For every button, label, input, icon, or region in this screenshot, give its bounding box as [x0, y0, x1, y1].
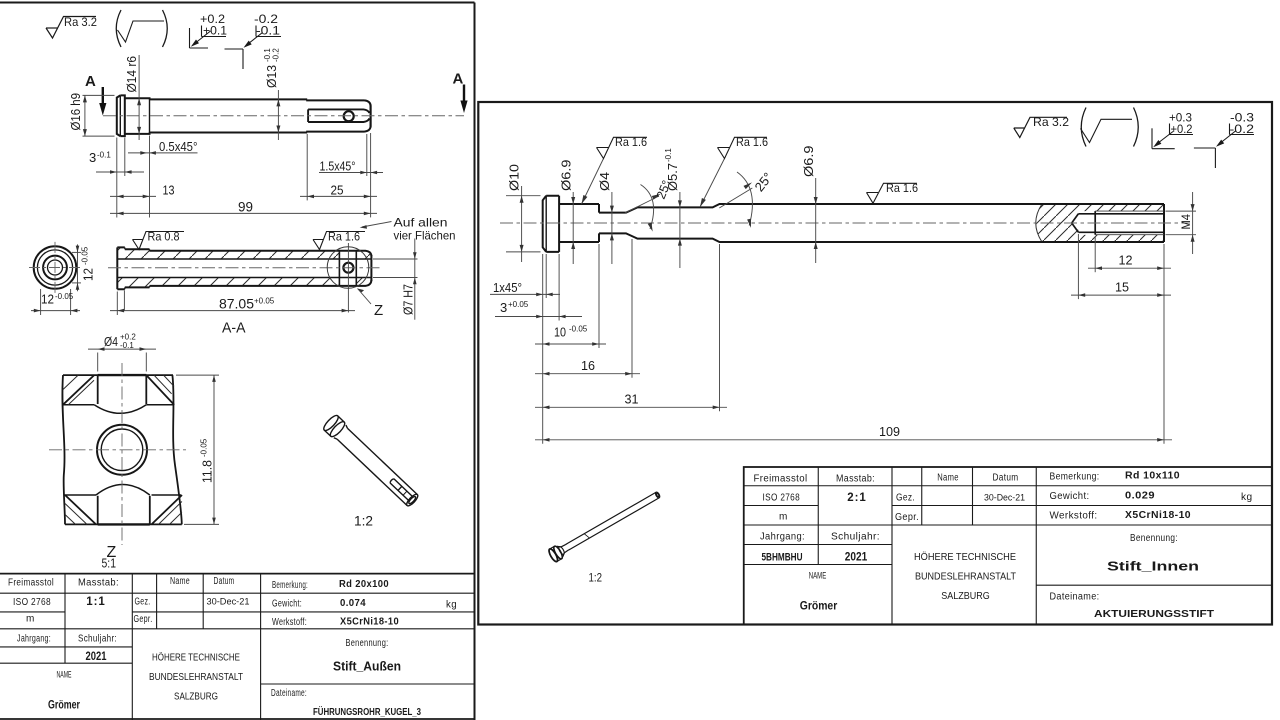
right pin centerline: [500, 222, 1190, 224]
svg-text:Jahrgang:: Jahrgang:: [760, 532, 805, 543]
surface symbol Ra 1.6 no.1 with leader: [582, 159, 604, 205]
dimension D4 +0.2/-0.1: [88, 349, 156, 371]
svg-text:99: 99: [238, 199, 253, 214]
svg-text:5:1: 5:1: [102, 557, 117, 571]
svg-text:NAME: NAME: [809, 571, 827, 581]
svg-text:Schuljahr:: Schuljahr:: [78, 634, 117, 645]
dimension D4: [611, 192, 613, 264]
svg-text:Datum: Datum: [214, 576, 235, 587]
right pin outline: [543, 196, 1164, 252]
dimension 1.5x45: [319, 134, 383, 176]
svg-text:25: 25: [331, 183, 344, 198]
dimension 16: [535, 373, 640, 375]
svg-text:Ø4: Ø4: [597, 172, 612, 191]
svg-text:1:1: 1:1: [86, 596, 106, 608]
svg-text:Stift_Innen: Stift_Innen: [1107, 560, 1199, 574]
svg-text:ISO 2768: ISO 2768: [13, 597, 51, 608]
svg-text:-0.3: -0.3: [1230, 113, 1254, 125]
edge tolerance symbol +0.3/+0.2 (right sheet): [1152, 124, 1193, 149]
surface symbol Ra 1.6 no.3: [867, 183, 918, 203]
dimension M4: [1166, 192, 1197, 254]
svg-text:-0.1: -0.1: [97, 151, 111, 160]
svg-text:m: m: [779, 512, 788, 523]
svg-text:Name: Name: [937, 473, 959, 484]
dimension D16 h9: [83, 95, 115, 136]
edge tolerance symbol +0.2/+0.1 (left sheet): [190, 26, 227, 49]
svg-text:5BHMBHU: 5BHMBHU: [762, 552, 803, 564]
svg-text:Datum: Datum: [993, 473, 1019, 484]
edge tolerance symbol -0.2/-0.1 (left sheet): [225, 26, 282, 70]
dimension D10: [506, 186, 541, 262]
svg-text:BUNDESLEHRANSTALT: BUNDESLEHRANSTALT: [915, 571, 1017, 583]
dimension 3 -0.1: [96, 138, 144, 218]
svg-text:16: 16: [581, 358, 595, 373]
main view cross hole: [344, 111, 354, 121]
svg-text:+0.05: +0.05: [254, 297, 275, 306]
dimension 13: [110, 136, 156, 218]
detail Z centerlines: [49, 363, 186, 545]
isometric view (left sheet): [322, 413, 421, 509]
svg-text:-0.05: -0.05: [569, 325, 588, 334]
dimension 12: [1088, 267, 1171, 269]
svg-text:Ra 1.6: Ra 1.6: [615, 135, 647, 149]
svg-text:m: m: [26, 614, 35, 625]
svg-text:Ø5.7: Ø5.7: [665, 163, 680, 191]
detail Z bore circles: [97, 425, 147, 475]
svg-text:Jahrgang:: Jahrgang:: [17, 634, 51, 645]
svg-text:ISO 2768: ISO 2768: [763, 493, 801, 504]
svg-text:-0.2: -0.2: [254, 14, 278, 26]
svg-text:Z: Z: [374, 302, 383, 319]
svg-text:12: 12: [81, 268, 96, 281]
svg-text:12: 12: [1119, 253, 1133, 268]
svg-text:FÜHRUNGSROHR_KUGEL_3: FÜHRUNGSROHR_KUGEL_3: [313, 705, 421, 718]
svg-text:Ø4: Ø4: [104, 334, 118, 349]
dimension 12 -0.05 (vertical): [72, 244, 81, 291]
svg-text:+0.3: +0.3: [1169, 113, 1192, 125]
svg-text:Auf allen: Auf allen: [394, 216, 448, 230]
dimension 0.5x45: [128, 152, 198, 154]
detail view Z 5:1 outline: [62, 375, 182, 524]
dimension D6.9 no.1: [572, 192, 574, 264]
svg-text:Ø6.9: Ø6.9: [801, 146, 816, 178]
svg-text:1x45°: 1x45°: [493, 281, 522, 295]
svg-text:SALZBURG: SALZBURG: [174, 691, 218, 703]
dimension D7 H7: [373, 239, 418, 320]
svg-text:15: 15: [1115, 279, 1129, 294]
svg-text:-0.05: -0.05: [200, 438, 209, 457]
svg-text:Benennung:: Benennung:: [346, 638, 389, 649]
svg-text:Name: Name: [170, 576, 190, 587]
svg-text:3: 3: [89, 150, 96, 165]
svg-text:Ø10: Ø10: [507, 164, 522, 191]
svg-text:Gepr.: Gepr.: [134, 614, 153, 625]
svg-text:Grömer: Grömer: [800, 601, 838, 613]
detail Z corner hatch lines: [63, 375, 182, 524]
dimension 12 -0.05 (across flats, horizontal): [31, 289, 80, 315]
svg-text:11.8: 11.8: [200, 460, 215, 483]
surface symbol Ra 0.8 on section: [133, 232, 185, 250]
svg-text:Masstab:: Masstab:: [78, 578, 119, 589]
svg-text:Ø14 r6: Ø14 r6: [125, 56, 139, 93]
svg-text:-0.2: -0.2: [1230, 124, 1255, 136]
parenthesised surface symbol (left sheet): [116, 10, 167, 47]
svg-text:Bemerkung:: Bemerkung:: [1050, 472, 1100, 483]
dimension 1x45: [490, 293, 560, 295]
svg-text:AKTUIERUNGSSTIFT: AKTUIERUNGSSTIFT: [1094, 608, 1215, 620]
svg-text:Schuljahr:: Schuljahr:: [831, 532, 880, 543]
svg-text:Freimasstol: Freimasstol: [8, 578, 54, 589]
svg-text:Gepr.: Gepr.: [895, 512, 919, 523]
dimension 109: [535, 439, 1172, 441]
svg-text:Freimasstol: Freimasstol: [754, 474, 808, 485]
svg-text:vier Flächen: vier Flächen: [394, 229, 456, 243]
svg-text:-0.1: -0.1: [664, 148, 673, 162]
dimension 10 -0.05: [535, 343, 606, 345]
svg-text:12: 12: [41, 292, 54, 307]
svg-text:Werkstoff:: Werkstoff:: [1050, 511, 1098, 522]
svg-text:Stift_Außen: Stift_Außen: [333, 660, 401, 674]
svg-text:A-A: A-A: [222, 320, 246, 337]
svg-text:NAME: NAME: [57, 670, 72, 680]
svg-text:30-Dec-21: 30-Dec-21: [984, 493, 1025, 503]
svg-text:kg: kg: [1241, 492, 1253, 503]
svg-text:0.5x45°: 0.5x45°: [159, 140, 198, 154]
angle dim 25 deg no.1: [625, 196, 659, 213]
svg-text:Masstab:: Masstab:: [836, 474, 875, 485]
svg-text:87.05: 87.05: [219, 297, 254, 312]
dimension D14 r6: [138, 55, 140, 140]
section A-A hatch: [117, 247, 371, 289]
svg-text:X5CrNi18-10: X5CrNi18-10: [340, 617, 399, 628]
svg-text:+0.1: +0.1: [203, 26, 227, 38]
svg-text:Gez.: Gez.: [896, 493, 915, 504]
detail circle Z: [327, 247, 369, 289]
svg-text:10: 10: [554, 325, 566, 340]
right sheet border: [478, 102, 1272, 625]
svg-text:2021: 2021: [845, 552, 868, 564]
svg-text:-0.05: -0.05: [55, 292, 74, 301]
svg-text:Ø6.9: Ø6.9: [559, 160, 574, 192]
main view slot: [308, 109, 369, 122]
svg-text:M4: M4: [1179, 214, 1193, 230]
svg-text:1:2: 1:2: [354, 513, 373, 529]
svg-text:-0.05: -0.05: [81, 246, 90, 265]
svg-text:Ra 3.2: Ra 3.2: [1033, 115, 1069, 129]
left title block grid: [0, 573, 475, 575]
dimension 25: [300, 133, 377, 217]
main view centerline: [103, 115, 464, 117]
svg-text:Ra 1.6: Ra 1.6: [736, 135, 768, 149]
surface symbol Ra 1.6 no.2 with leader: [700, 159, 725, 208]
svg-text:1.5x45°: 1.5x45°: [320, 159, 356, 173]
section centerline: [108, 267, 382, 269]
left sheet border: [0, 3, 475, 720]
main view outer pin outline: [117, 95, 371, 136]
svg-text:Grömer: Grömer: [48, 700, 80, 712]
dimension 87.05 +0.05: [116, 292, 118, 316]
dimension 11.8 -0.05: [176, 375, 219, 524]
svg-text:HÖHERE TECHNISCHE: HÖHERE TECHNISCHE: [152, 652, 240, 664]
svg-text:Rd 10x110: Rd 10x110: [1125, 471, 1180, 482]
angle dim 25 deg no.2: [719, 188, 752, 208]
isometric view (right sheet): [547, 488, 662, 563]
svg-text:+0.05: +0.05: [508, 300, 529, 309]
svg-text:Ra 1.6: Ra 1.6: [328, 230, 360, 244]
right title block grid: [744, 467, 1272, 625]
svg-text:Ø13: Ø13: [264, 65, 279, 88]
dimension 31: [535, 406, 727, 408]
leader Z: [358, 289, 372, 305]
svg-text:+0.2: +0.2: [1171, 124, 1193, 136]
edge tolerance symbol -0.3/-0.2 (right sheet): [1194, 124, 1254, 169]
svg-text:A: A: [85, 73, 96, 90]
svg-text:Ra 3.2: Ra 3.2: [64, 15, 97, 29]
dimension 99: [110, 212, 377, 214]
svg-text:X5CrNi18-10: X5CrNi18-10: [1125, 510, 1191, 521]
svg-text:Ra 0.8: Ra 0.8: [148, 230, 180, 244]
svg-text:30-Dec-21: 30-Dec-21: [207, 597, 250, 607]
parenthesised surface symbol (right sheet): [1081, 108, 1139, 147]
svg-text:Rd 20x100: Rd 20x100: [339, 579, 389, 590]
svg-text:-0.1: -0.1: [256, 26, 280, 38]
dimension D5.7 -0.1: [679, 192, 681, 268]
surface symbol Ra 1.6 on section: [313, 232, 365, 250]
surface symbol Ra 3.2 (right sheet): [1014, 117, 1067, 137]
svg-text:13: 13: [163, 183, 175, 198]
section A-A tube outline: [117, 247, 371, 289]
svg-text:0.029: 0.029: [1125, 491, 1155, 502]
dimension 15: [1071, 294, 1171, 296]
svg-text:Gewicht:: Gewicht:: [272, 599, 302, 610]
svg-text:Ø7 H7: Ø7 H7: [401, 284, 416, 315]
dimension D6.9 no.2: [815, 178, 817, 263]
svg-text:31: 31: [625, 392, 639, 407]
section A-A end view circles: [34, 246, 77, 289]
svg-text:Dateiname:: Dateiname:: [1050, 592, 1100, 603]
svg-text:A: A: [453, 71, 464, 88]
svg-text:2021: 2021: [86, 651, 107, 663]
svg-text:-0.2: -0.2: [272, 48, 281, 62]
section cross hole: [343, 263, 353, 273]
svg-text:Benennung:: Benennung:: [1130, 533, 1178, 544]
svg-text:3: 3: [500, 300, 507, 315]
svg-text:Bemerkung:: Bemerkung:: [272, 580, 308, 591]
svg-text:Gewicht:: Gewicht:: [1050, 491, 1090, 502]
svg-text:Ø16 h9: Ø16 h9: [69, 93, 83, 131]
svg-text:+0.2: +0.2: [200, 14, 225, 26]
svg-text:109: 109: [879, 424, 900, 439]
svg-text:HÖHERE TECHNISCHE: HÖHERE TECHNISCHE: [914, 551, 1016, 563]
svg-text:SALZBURG: SALZBURG: [941, 590, 990, 602]
svg-text:BUNDESLEHRANSTALT: BUNDESLEHRANSTALT: [149, 671, 243, 683]
dimension D13 -0.1/-0.2: [277, 90, 279, 140]
svg-text:Dateiname:: Dateiname:: [271, 688, 307, 699]
threaded hole M4: [1072, 211, 1164, 235]
svg-text:kg: kg: [446, 600, 457, 611]
dimension 3 +0.05: [495, 316, 582, 318]
svg-text:Gez.: Gez.: [135, 597, 151, 608]
right pin hatch (threaded end local section): [1036, 204, 1164, 242]
surface symbol Ra 3.2 (left sheet): [46, 17, 96, 39]
svg-text:2:1: 2:1: [847, 492, 867, 504]
svg-text:-0.1: -0.1: [120, 341, 134, 350]
svg-text:1:2: 1:2: [589, 571, 603, 585]
svg-text:0.074: 0.074: [340, 598, 366, 609]
svg-text:Werkstoff:: Werkstoff:: [272, 617, 307, 628]
svg-text:Ra 1.6: Ra 1.6: [886, 181, 918, 195]
